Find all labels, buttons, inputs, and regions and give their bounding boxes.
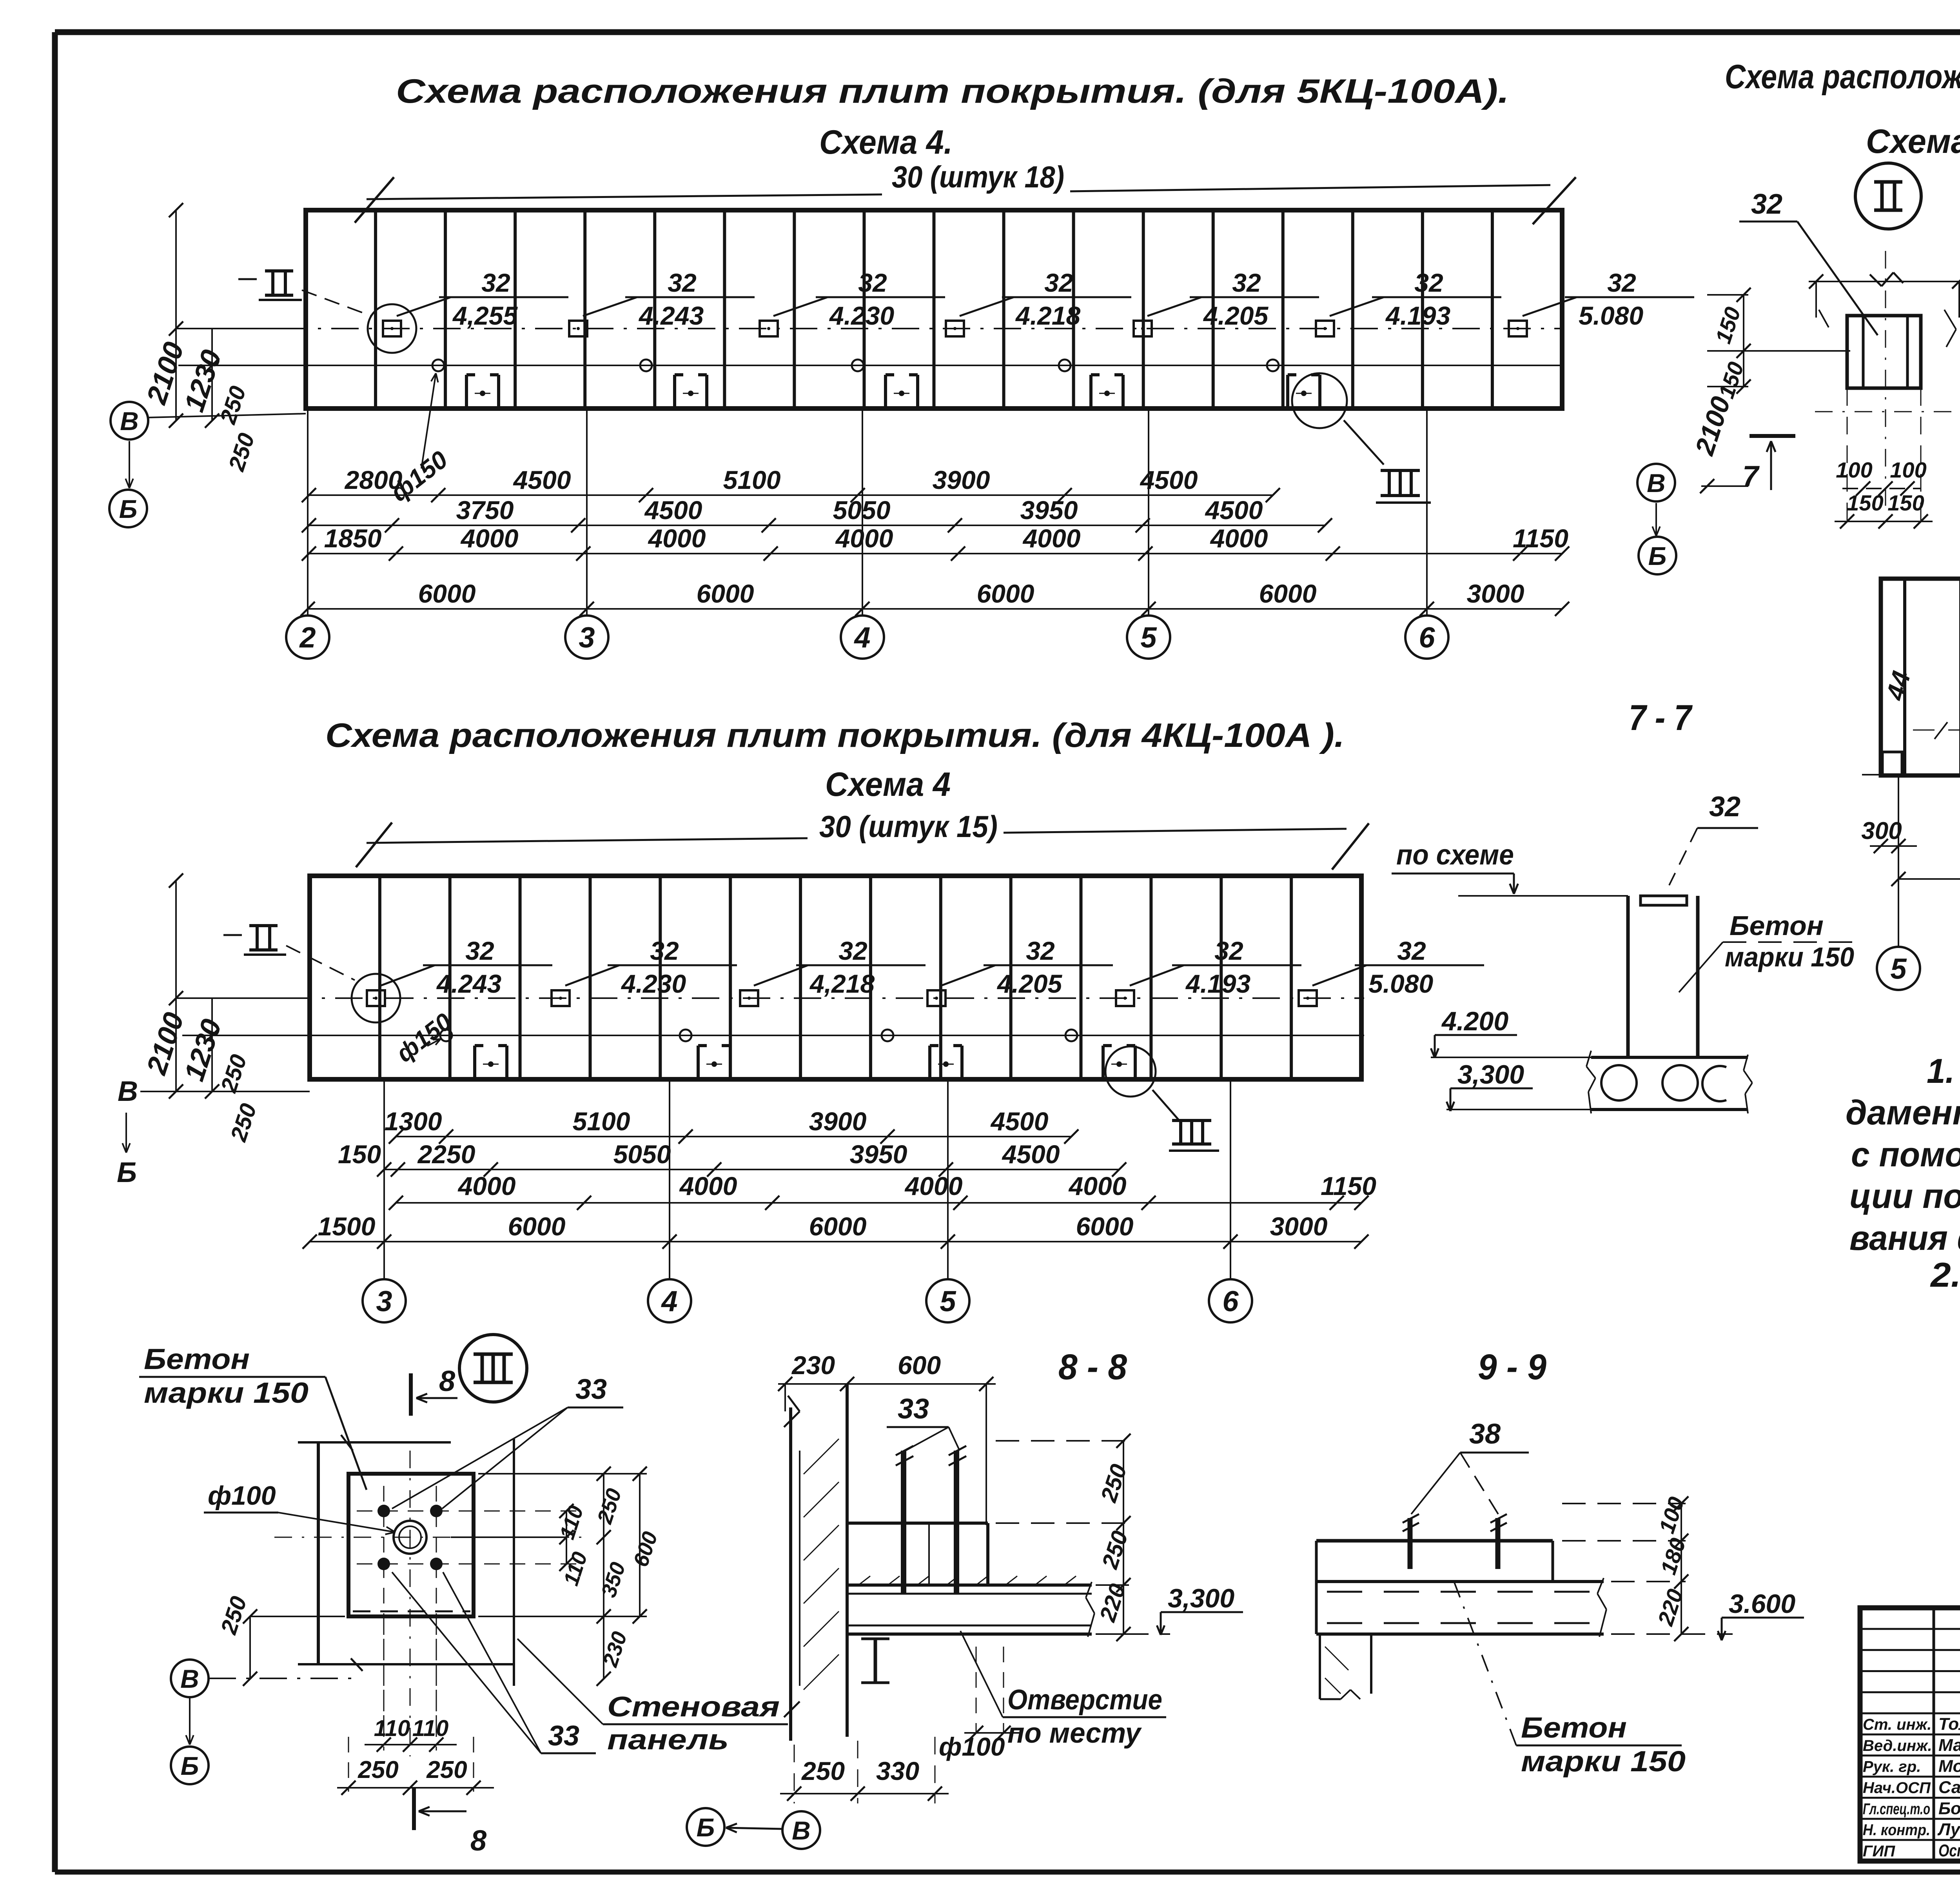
svg-text:Осташевский: Осташевский	[1938, 1841, 1960, 1860]
detail III section mark 8 bottom	[412, 1787, 416, 1830]
plan 1 slab strip outline	[306, 210, 1562, 409]
plan 1 bolt circles	[432, 360, 444, 371]
svg-text:4000: 4000	[460, 524, 519, 553]
svg-text:4000: 4000	[1210, 524, 1268, 553]
detail III lower band	[298, 1663, 514, 1665]
svg-text:4000: 4000	[648, 524, 706, 553]
section 8-8 anchor bolts	[901, 1451, 906, 1594]
svg-text:100: 100	[1836, 458, 1872, 482]
svg-text:8 - 8: 8 - 8	[1058, 1347, 1127, 1387]
section 9-9 slab	[1316, 1580, 1604, 1583]
title block left table verticals	[1933, 1608, 1935, 1861]
detail III wall band	[317, 1442, 320, 1664]
detail III dashed centerlines	[410, 1451, 411, 1756]
plan 1 axis В circle left	[111, 402, 148, 439]
svg-text:32: 32	[1414, 268, 1443, 297]
section 9-9 beam top line	[1316, 1539, 1553, 1543]
svg-text:9 - 9: 9 - 9	[1478, 1347, 1546, 1387]
svg-text:Б: Б	[119, 494, 138, 523]
svg-text:600: 600	[898, 1351, 941, 1380]
svg-text:Макарова: Макарова	[1938, 1736, 1960, 1755]
svg-text:2: 2	[299, 621, 316, 654]
svg-text:5100: 5100	[573, 1107, 630, 1136]
svg-text:3000: 3000	[1270, 1212, 1328, 1241]
svg-text:Толмачева: Толмачева	[1938, 1714, 1960, 1734]
scheme 5 seats bottom of horizontal strip	[1882, 752, 1902, 775]
svg-text:3950: 3950	[850, 1140, 907, 1169]
svg-text:230: 230	[791, 1351, 835, 1380]
detail III axis В circle	[171, 1660, 209, 1697]
plan 2 column squares 32	[367, 990, 385, 1006]
detail III anchor bolts	[377, 1505, 390, 1517]
title block left table rows	[1860, 1628, 1960, 1630]
svg-text:8: 8	[470, 1824, 487, 1857]
svg-text:2250: 2250	[417, 1140, 475, 1169]
svg-text:6000: 6000	[697, 579, 754, 608]
plan 2 axis circle 3	[363, 1279, 406, 1322]
svg-text:6000: 6000	[809, 1212, 867, 1241]
svg-text:110: 110	[374, 1716, 410, 1741]
plan 1 section mark II with leader	[265, 269, 293, 272]
svg-text:Луценко: Луценко	[1937, 1820, 1960, 1839]
svg-text:4,255: 4,255	[452, 301, 518, 330]
svg-text:Боярченко: Боярченко	[1938, 1799, 1960, 1818]
plan 1 view marks В/Б right side	[1637, 464, 1675, 501]
plan 2 line through bolt circles	[182, 1035, 1364, 1036]
svg-text:В: В	[118, 1076, 138, 1107]
svg-text:330: 330	[876, 1756, 919, 1785]
svg-text:3000: 3000	[1467, 579, 1524, 608]
svg-text:4.243: 4.243	[638, 301, 704, 330]
plan 2 section mark II with leader	[249, 924, 278, 927]
svg-text:по месту: по месту	[1007, 1718, 1142, 1749]
svg-text:5: 5	[1140, 621, 1157, 654]
svg-text:Бетон: Бетон	[144, 1343, 250, 1375]
svg-text:4.193: 4.193	[1185, 969, 1250, 998]
section 8-8 view direction Б-В circles	[687, 1808, 724, 1846]
svg-text:32: 32	[465, 936, 494, 965]
svg-text:Б: Б	[117, 1157, 137, 1188]
svg-text:33: 33	[898, 1393, 929, 1425]
section 8-8 right dims 250/250/220	[1123, 1441, 1124, 1634]
plan 1 elevation labels 32	[397, 297, 451, 316]
plan 1 column axis lines	[307, 409, 309, 616]
svg-text:2. На схеме 4 указана отмет: 2. На схеме 4 указана отметка верха опор…	[1930, 1255, 1960, 1294]
svg-text:32: 32	[668, 268, 697, 297]
detail II break marks sides	[1944, 310, 1956, 329]
svg-text:ции по креплению технологич: ции по креплению технологического оборуд…	[1849, 1177, 1960, 1215]
svg-text:4000: 4000	[1022, 524, 1081, 553]
svg-text:4: 4	[853, 621, 870, 654]
svg-text:3900: 3900	[933, 465, 990, 494]
svg-text:Б: Б	[181, 1751, 199, 1780]
plan 2 elevation labels 32	[381, 965, 435, 986]
svg-text:4,218: 4,218	[809, 969, 875, 998]
svg-text:Б: Б	[697, 1813, 715, 1842]
svg-text:38: 38	[1469, 1418, 1501, 1450]
detail II left dims 150/150/2100	[1743, 295, 1744, 387]
detail II section marks 7-7	[1749, 434, 1795, 438]
svg-text:150: 150	[1847, 490, 1883, 515]
plan 1 axis Б circle left with arrow	[129, 441, 130, 488]
svg-text:Стеновая: Стеновая	[607, 1691, 780, 1723]
svg-text:1150: 1150	[1513, 524, 1568, 553]
svg-text:вания фундаментными болтами: вания фундаментными болтами СН471-75.	[1849, 1218, 1960, 1257]
section 7-7 top of column line	[1458, 895, 1628, 897]
detail II circle mark	[1855, 163, 1921, 229]
detail III axis Б circle	[171, 1747, 209, 1784]
svg-text:Моргунов: Моргунов	[1938, 1757, 1960, 1776]
svg-text:4500: 4500	[644, 496, 702, 525]
svg-text:Схема расположения плит: Схема расположения плит покрытия. (для 4…	[325, 717, 1345, 754]
svg-text:5.080: 5.080	[1368, 969, 1433, 998]
section 8-8 wall panel	[789, 1407, 792, 1741]
svg-text:ф100: ф100	[208, 1481, 276, 1511]
svg-text:32: 32	[1397, 936, 1426, 965]
svg-text:33: 33	[548, 1720, 579, 1752]
plan 1 dimension row 1850/4000x5/1150	[309, 553, 1562, 554]
plan 2 beam seats	[473, 1046, 476, 1079]
svg-text:5: 5	[1890, 953, 1907, 985]
svg-text:5: 5	[940, 1285, 956, 1318]
svg-text:250: 250	[801, 1756, 845, 1785]
title block outer frame	[1860, 1608, 1960, 1861]
svg-text:3,300: 3,300	[1168, 1583, 1234, 1613]
svg-text:6000: 6000	[418, 579, 476, 608]
plan 2 bolt circles	[440, 1030, 452, 1041]
svg-text:Бетон: Бетон	[1521, 1711, 1627, 1744]
svg-text:3: 3	[376, 1285, 392, 1318]
svg-text:В: В	[120, 407, 139, 436]
svg-text:панель: панель	[607, 1724, 729, 1756]
plan 2 column axis lines	[383, 1079, 385, 1279]
section 8-8 seat block	[847, 1522, 988, 1525]
svg-text:4.218: 4.218	[1015, 301, 1080, 330]
section 9-9 support block	[1319, 1634, 1321, 1699]
svg-text:по схеме: по схеме	[1396, 839, 1514, 871]
svg-text:3750: 3750	[456, 496, 514, 525]
svg-text:300: 300	[1861, 817, 1902, 844]
svg-text:32: 32	[1709, 791, 1740, 823]
svg-text:3: 3	[579, 621, 595, 654]
plan 2 label III with leader	[1152, 1090, 1180, 1121]
svg-text:4000: 4000	[457, 1171, 516, 1200]
svg-text:33: 33	[575, 1374, 607, 1405]
svg-text:6: 6	[1222, 1285, 1239, 1318]
sheet border frame	[55, 29, 1960, 35]
plan 2 axis circle 6	[1209, 1279, 1252, 1322]
svg-text:4.230: 4.230	[829, 301, 894, 330]
svg-text:4000: 4000	[835, 524, 893, 553]
svg-text:1. Болты тип 5 установить в: 1. Болты тип 5 установить в готовые фун-	[1927, 1051, 1960, 1090]
svg-text:32: 32	[650, 936, 679, 965]
svg-text:4.193: 4.193	[1385, 301, 1450, 330]
svg-text:4500: 4500	[513, 465, 571, 494]
plan 1 left vertical dims 2100/1230/250/250	[175, 210, 177, 421]
svg-text:4: 4	[661, 1285, 677, 1318]
svg-text:Рук. гр.: Рук. гр.	[1863, 1758, 1921, 1776]
svg-text:В: В	[792, 1816, 811, 1845]
svg-text:5050: 5050	[613, 1140, 671, 1169]
plan 2 detail circle around seat (III)	[1105, 1046, 1156, 1097]
section 8-8 I-beam under slab	[861, 1638, 889, 1640]
plan 1 dimension row 3750/4500/5050/3950/4500	[309, 525, 1325, 526]
svg-text:Б: Б	[1648, 541, 1667, 570]
scheme 5 axis circle 5	[1898, 863, 1899, 947]
plan 1 axis circle 2	[286, 616, 329, 659]
scheme 5 horizontal slab strip outline	[1881, 579, 1960, 775]
plan 1 line through bolt circles	[178, 365, 1564, 366]
svg-text:с помощью эпоксидного клея: с помощью эпоксидного клея , согласно ин…	[1851, 1135, 1960, 1174]
svg-text:250: 250	[358, 1756, 398, 1783]
svg-text:марки 150: марки 150	[1521, 1745, 1686, 1778]
svg-text:30 (штук 15): 30 (штук 15)	[819, 809, 998, 844]
svg-text:В: В	[1647, 469, 1666, 498]
svg-text:Н. контр.: Н. контр.	[1863, 1821, 1930, 1839]
svg-text:32: 32	[858, 268, 887, 297]
svg-text:4000: 4000	[679, 1171, 737, 1200]
svg-text:4500: 4500	[990, 1107, 1049, 1136]
plan 1 dimension row 2800/4500/5100/3900/4500	[309, 494, 1273, 496]
plan 1 axis circle 5	[1127, 616, 1170, 659]
detail III section mark 8 top	[409, 1373, 413, 1416]
plan 2 left vertical dims 2100/1230/250/250	[175, 881, 177, 1091]
detail II top break line	[1809, 281, 1960, 282]
svg-text:7 - 7: 7 - 7	[1629, 698, 1693, 738]
svg-text:ГИП: ГИП	[1863, 1843, 1895, 1860]
scheme 5 horizontal strip plate lines	[1903, 579, 1906, 775]
svg-text:В: В	[180, 1664, 199, 1693]
svg-text:Схема 4.: Схема 4.	[819, 123, 953, 161]
svg-text:150: 150	[338, 1140, 381, 1169]
svg-text:32: 32	[1214, 936, 1243, 965]
svg-text:1150: 1150	[1321, 1171, 1376, 1200]
detail III right dims 110/110 250/350 600 230	[566, 1511, 567, 1564]
plan 1 axis circle 4	[841, 616, 884, 659]
svg-text:8: 8	[439, 1365, 456, 1397]
section 7-7 slab with hollow cores	[1591, 1056, 1748, 1059]
section 8-8 slab hatch	[858, 1576, 870, 1585]
svg-text:4.205: 4.205	[1203, 301, 1269, 330]
detail III pad dashed bottom edge	[353, 1611, 470, 1613]
plan 2 dimension row 1300/5100/3900/4500	[396, 1136, 1071, 1137]
plan 2 plate division lines	[378, 876, 381, 1079]
svg-text:3.600: 3.600	[1729, 1589, 1795, 1619]
svg-text:4.230: 4.230	[621, 969, 686, 998]
plan 2 dimension row 150/2250/5050/3950/4500	[384, 1169, 1119, 1170]
svg-text:5.080: 5.080	[1579, 301, 1643, 330]
plan 1 axis circle 6	[1405, 616, 1448, 659]
svg-text:Схема 5: Схема 5	[1866, 123, 1960, 160]
plan 2 dashed detail circle around first square	[352, 974, 400, 1022]
svg-text:32: 32	[1026, 936, 1055, 965]
svg-text:2800: 2800	[344, 465, 403, 494]
svg-text:4500: 4500	[1002, 1140, 1060, 1169]
svg-text:1850: 1850	[324, 524, 382, 553]
svg-text:Нач.ОСП: Нач.ОСП	[1863, 1779, 1931, 1796]
section 8-8 wall hatch	[804, 1439, 839, 1474]
svg-text:32: 32	[1044, 268, 1073, 297]
section 9-9 anchor bolts	[1408, 1518, 1413, 1569]
plan 2 dimension row 1500/6000x3/3000	[310, 1241, 1361, 1242]
plan 1 column squares 32	[383, 321, 401, 336]
plan 1 axis line through column squares	[178, 328, 1564, 329]
detail III hole ф100	[394, 1521, 426, 1554]
svg-text:марки 150: марки 150	[1725, 942, 1854, 972]
plan 2 slab strip outline	[310, 876, 1361, 1079]
plan 1 dimension row 6000x4/3000	[308, 608, 1562, 610]
svg-text:Ст. инж.: Ст. инж.	[1863, 1716, 1931, 1733]
svg-text:32: 32	[481, 268, 510, 297]
plan 2 axis circle 4	[648, 1279, 691, 1322]
svg-text:Саакьянц: Саакьянц	[1938, 1778, 1960, 1797]
plan 2 axis circle 5	[926, 1279, 969, 1322]
plan 1 detail circle around last seat (III)	[1292, 373, 1347, 428]
plan 1 detail circle around first square	[368, 304, 416, 353]
svg-text:6000: 6000	[1076, 1212, 1134, 1241]
detail II dashed centerlines	[1885, 251, 1886, 506]
svg-text:4500: 4500	[1205, 496, 1263, 525]
svg-text:7: 7	[1742, 460, 1760, 492]
svg-text:150: 150	[1887, 490, 1924, 515]
svg-text:6000: 6000	[1259, 579, 1317, 608]
svg-text:марки 150: марки 150	[144, 1376, 309, 1409]
svg-text:Схема расположения плит: Схема расположения плит покрытия. (для 5…	[396, 73, 1509, 110]
detail III circle mark III	[459, 1335, 527, 1402]
detail III bottom dims 110 110 / 250 250	[383, 1619, 385, 1751]
plan 2 dimension row 4000x4/1150	[396, 1202, 1361, 1204]
detail III pad outline	[348, 1474, 474, 1616]
svg-text:4.205: 4.205	[996, 969, 1062, 998]
svg-text:6000: 6000	[977, 579, 1034, 608]
svg-text:Вед.инж.: Вед.инж.	[1863, 1737, 1932, 1754]
plan 1 plate division lines	[374, 210, 377, 409]
svg-text:3950: 3950	[1020, 496, 1078, 525]
detail II column section	[1847, 316, 1921, 388]
svg-text:6000: 6000	[508, 1212, 566, 1241]
scheme 5 axis А line and circle	[1862, 774, 1960, 775]
detail III right boundary	[513, 1439, 515, 1686]
section 7-7 column	[1626, 896, 1630, 1057]
svg-text:4.200: 4.200	[1441, 1006, 1508, 1036]
plan 1 axis circle 3	[565, 616, 608, 659]
section 8-8 slab	[847, 1583, 1092, 1587]
svg-text:Гл.спец.т.о: Гл.спец.т.о	[1863, 1800, 1930, 1818]
svg-text:32: 32	[1751, 189, 1782, 220]
svg-text:32: 32	[1607, 268, 1636, 297]
svg-text:32: 32	[1232, 268, 1261, 297]
svg-text:Схема расположения плит пер: Схема расположения плит перекрытия на от…	[1725, 58, 1960, 96]
svg-text:6: 6	[1419, 621, 1435, 654]
plan 1 beam seats	[465, 375, 468, 409]
svg-text:250: 250	[426, 1756, 467, 1783]
svg-text:4.243: 4.243	[436, 969, 501, 998]
svg-text:5100: 5100	[723, 465, 781, 494]
svg-text:4000: 4000	[1068, 1171, 1127, 1200]
plan 1 label III with leader	[1344, 420, 1384, 465]
svg-text:3900: 3900	[809, 1107, 867, 1136]
svg-text:Бетон: Бетон	[1730, 910, 1824, 941]
svg-text:Отверстие: Отверстие	[1007, 1684, 1162, 1716]
svg-text:30 (штук 18): 30 (штук 18)	[892, 160, 1064, 194]
plan 2 axis line through column squares	[182, 997, 1364, 999]
section 8-8 wall break marks	[784, 1411, 800, 1427]
svg-text:1300: 1300	[385, 1107, 442, 1136]
svg-text:1500: 1500	[318, 1212, 376, 1241]
svg-text:3,300: 3,300	[1457, 1060, 1524, 1090]
scheme 5 dim 6000 axis5-axis6	[1898, 878, 1960, 880]
svg-text:32: 32	[838, 936, 867, 965]
svg-text:даменты в просверленные скв: даменты в просверленные скважены , закре…	[1846, 1093, 1960, 1132]
svg-text:Схема 4: Схема 4	[825, 766, 951, 803]
section 9-9 right dims 100/180/220	[1681, 1504, 1682, 1634]
section 7-7 slab level lines left	[1431, 1057, 1591, 1058]
svg-text:4000: 4000	[904, 1171, 963, 1200]
